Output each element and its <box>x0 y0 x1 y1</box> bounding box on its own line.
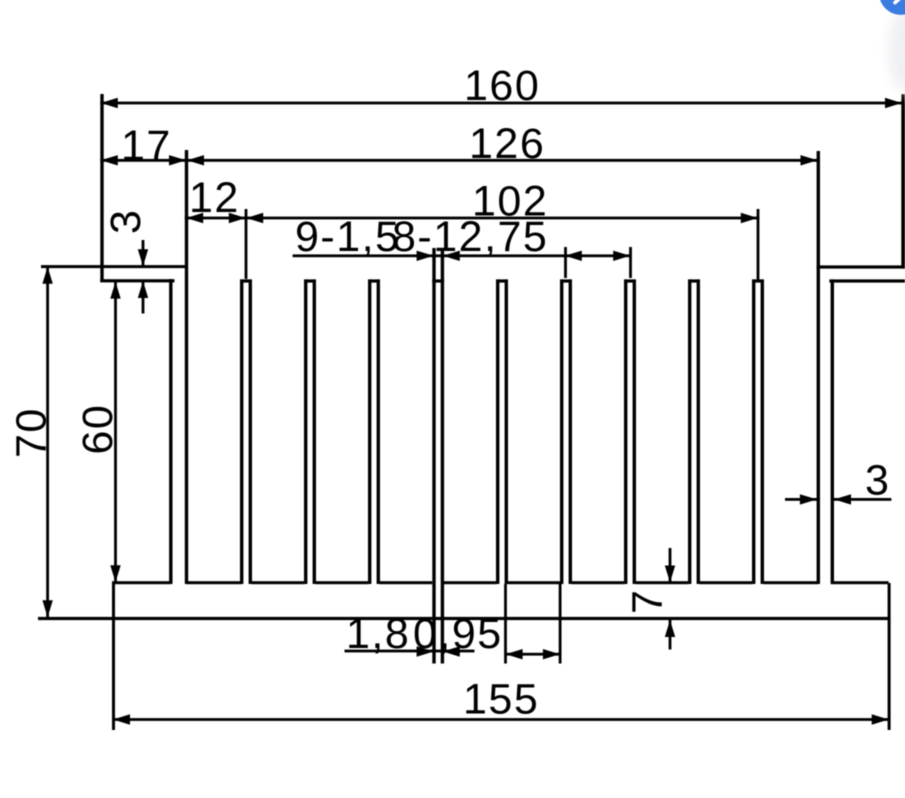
base bottom line <box>38 617 890 620</box>
fin pitch extension line left <box>564 247 567 278</box>
dimension 8-12,75 label <box>392 213 548 261</box>
fin 1 <box>240 279 252 584</box>
svg-text:12: 12 <box>189 174 240 222</box>
svg-text:3: 3 <box>865 457 890 505</box>
fin 7 <box>624 279 636 584</box>
svg-text:155: 155 <box>463 676 539 724</box>
base left edge with 155 extension <box>112 583 115 730</box>
dimension 60 line <box>110 281 120 584</box>
dimension 9-1,5 label <box>295 213 401 261</box>
dimension 0,95 label <box>413 610 503 658</box>
right wall inner line <box>817 151 820 584</box>
dimension 3 left label <box>102 209 150 234</box>
dimension 7 line <box>665 548 675 650</box>
dimension 1,8 line <box>345 646 475 656</box>
svg-text:0,95: 0,95 <box>413 610 503 658</box>
dimension 155 line <box>112 714 890 724</box>
dimension 0,95 extension line left <box>504 584 507 664</box>
dimension 70 line <box>42 266 52 619</box>
dimension 12 and 102 shared line <box>185 213 760 223</box>
svg-text:160: 160 <box>464 62 540 110</box>
svg-text:70: 70 <box>8 407 56 458</box>
dimension 3 right line <box>785 494 891 504</box>
dimension 7 label <box>624 589 672 614</box>
dimension 3 left line <box>138 240 148 314</box>
svg-text:126: 126 <box>469 120 545 168</box>
left ear outer edge <box>100 94 103 282</box>
fin 4 (center) with extension lines for 9-1,5 and 1,8 dims <box>432 248 444 664</box>
svg-text:60: 60 <box>74 404 122 455</box>
dimension 126 label <box>469 120 545 168</box>
svg-text:9-1,5: 9-1,5 <box>295 213 401 261</box>
fin 8 <box>688 279 700 584</box>
fin 5 <box>496 279 508 584</box>
right flange top line <box>817 265 905 268</box>
dimension 102 extension line right <box>757 209 760 280</box>
left ledge line <box>100 279 174 282</box>
dimension 160 line <box>100 98 903 108</box>
dimension 0,95 extension line right <box>559 584 562 664</box>
dimension 1,8 label <box>346 610 410 658</box>
dimension 102 extension line left <box>245 209 248 279</box>
dimension 12 label <box>189 174 240 222</box>
fin pitch extension line right <box>629 247 632 278</box>
fin 6 <box>560 279 572 584</box>
dimension 155 label <box>463 676 539 724</box>
svg-text:8-12,75: 8-12,75 <box>392 213 548 261</box>
dimension 70 label <box>8 407 56 458</box>
dimension 3 right label <box>865 457 890 505</box>
right ledge line <box>829 279 905 282</box>
dimension 17 and 126 shared line <box>100 155 818 165</box>
fin 9 <box>752 279 764 584</box>
left wall inner line <box>185 150 188 584</box>
left flange top line <box>41 265 188 268</box>
floating blue button (clipped) <box>879 0 905 15</box>
svg-text:3: 3 <box>102 209 150 234</box>
fin 2 <box>304 279 316 584</box>
base top line segments <box>112 581 889 584</box>
panel shadow top right <box>888 8 905 92</box>
dimension 0,95 line <box>505 649 560 659</box>
dimension 60 label <box>74 404 122 455</box>
fin 3 <box>368 279 380 584</box>
svg-text:17: 17 <box>121 122 172 170</box>
right wall outer line <box>831 279 834 584</box>
dimension 102 label <box>472 178 548 226</box>
svg-text:7: 7 <box>624 589 672 614</box>
left wall outer line <box>169 279 172 584</box>
dimension 9-1,5 and 8-12,75 line <box>293 251 632 261</box>
dimension 17 label <box>121 122 172 170</box>
dimension 160 label <box>464 62 540 110</box>
base right edge with 155 extension <box>888 583 891 730</box>
right ear outer edge <box>901 94 905 269</box>
svg-text:1,8: 1,8 <box>346 610 410 658</box>
